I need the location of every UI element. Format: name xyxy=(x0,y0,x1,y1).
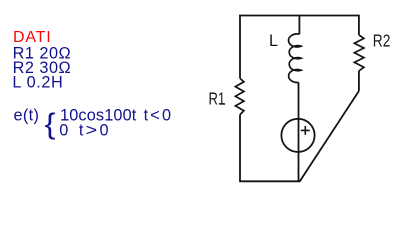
label e(t) source definition xyxy=(14,106,40,124)
svg-text:L 0.2H: L 0.2H xyxy=(12,74,63,92)
wire top horizontal xyxy=(239,15,359,17)
resistor R1 xyxy=(235,78,244,114)
voltage source E circle xyxy=(281,119,314,152)
wire right vertical lower xyxy=(358,71,360,91)
wire middle vertical lower through source xyxy=(298,82,300,181)
svg-text:DATI: DATI xyxy=(13,29,51,46)
wire left vertical upper xyxy=(239,15,241,79)
svg-text:0: 0 xyxy=(59,121,68,139)
svg-text:{: { xyxy=(45,107,56,140)
svg-text:L: L xyxy=(269,32,278,50)
label value L 0.2 H xyxy=(12,74,63,92)
svg-text:t<0: t<0 xyxy=(144,107,171,125)
svg-text:10cos100t: 10cos100t xyxy=(60,107,137,125)
resistor R2 xyxy=(354,35,364,71)
wire middle vertical upper xyxy=(298,15,300,35)
label expression 10cos100t t&lt;0 xyxy=(60,107,171,125)
label DATI heading xyxy=(13,29,51,46)
brace of piecewise definition xyxy=(45,107,56,140)
inductor L xyxy=(289,34,301,83)
label value R2 30 ohm xyxy=(13,59,72,77)
label R1 xyxy=(209,90,226,109)
svg-text:R1: R1 xyxy=(209,90,226,109)
wire diagonal to bottom junction xyxy=(300,91,359,181)
wire bottom horizontal xyxy=(239,180,300,182)
wire right vertical upper xyxy=(358,15,360,35)
label expression 0 t&gt;0 xyxy=(59,121,108,139)
plus polarity mark xyxy=(301,126,310,135)
svg-text:e(t): e(t) xyxy=(14,106,40,124)
svg-text:>: > xyxy=(86,121,98,139)
label R2 xyxy=(373,32,391,51)
svg-text:R2: R2 xyxy=(373,32,391,51)
label value R1 20 ohm xyxy=(13,44,72,62)
label L xyxy=(269,32,278,50)
wire left vertical lower xyxy=(239,115,241,182)
svg-text:t: t xyxy=(79,121,84,139)
svg-text:0: 0 xyxy=(100,121,109,139)
